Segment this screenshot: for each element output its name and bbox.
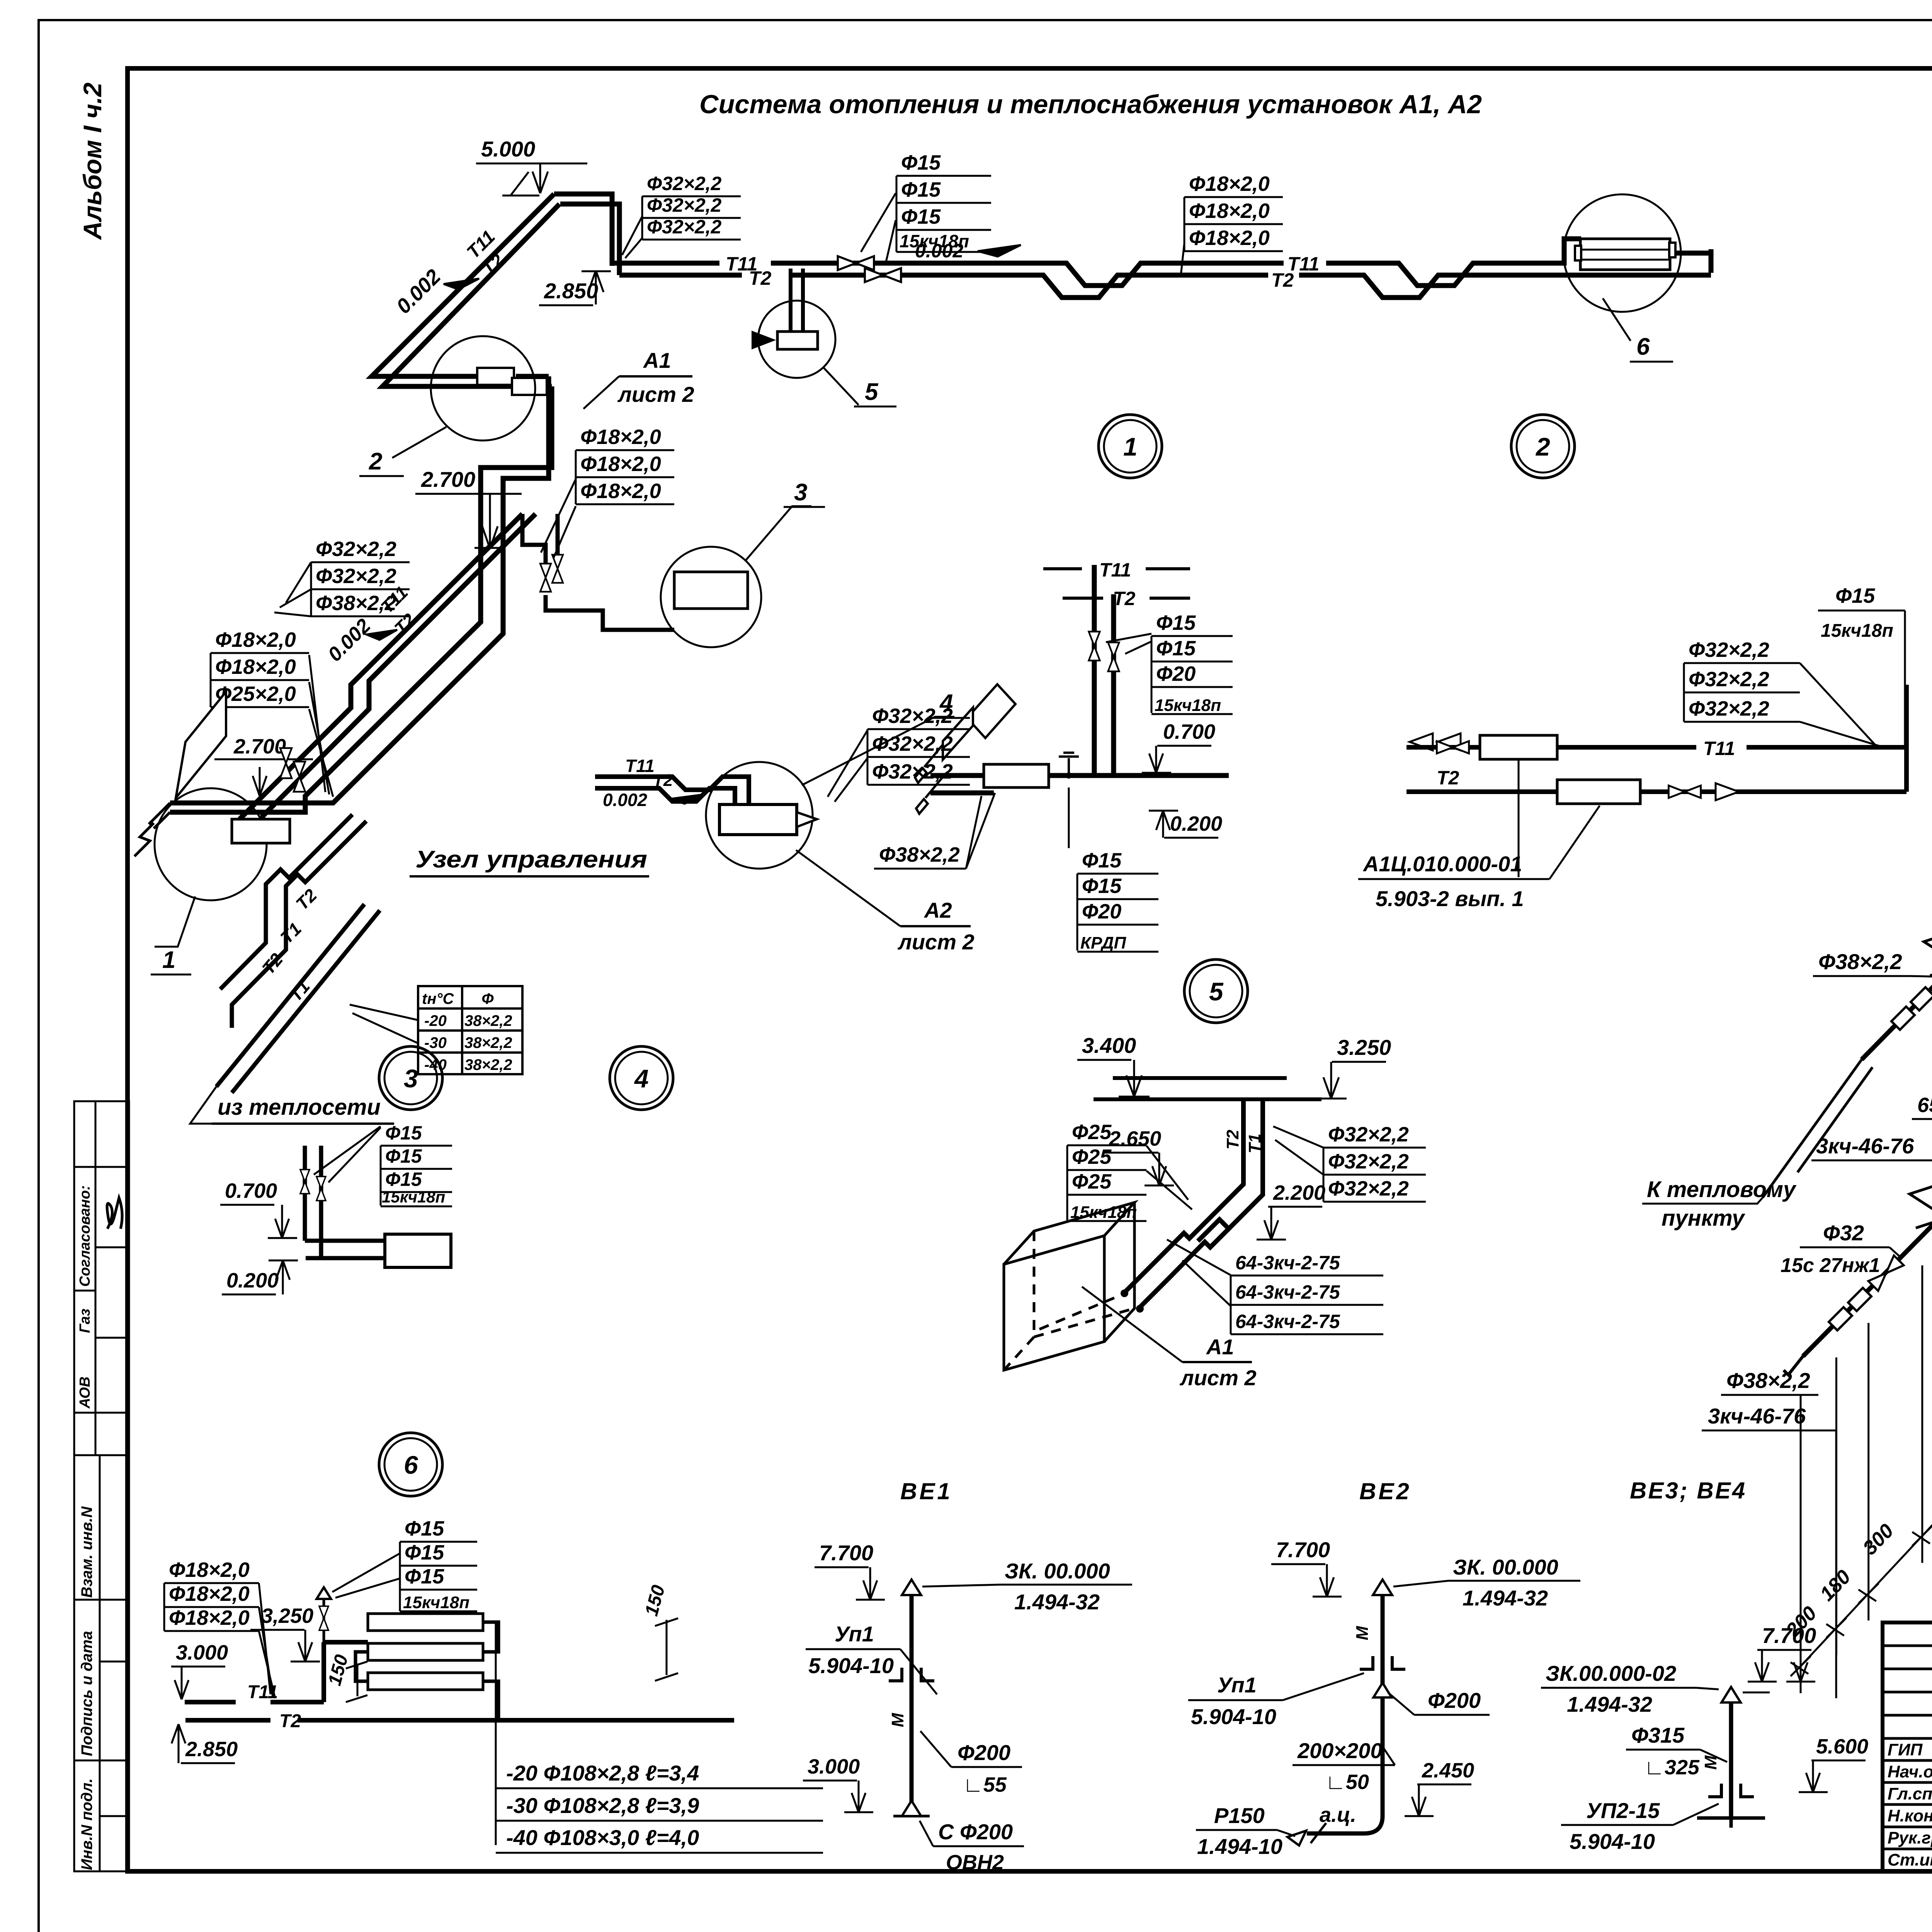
svg-text:Ф15: Ф15: [901, 151, 941, 174]
svg-text:Ф38×2,2: Ф38×2,2: [879, 843, 960, 866]
svg-text:∟50: ∟50: [1325, 1770, 1369, 1794]
BE2 pipe: [1381, 1596, 1385, 1816]
pipe B flags bottom: [1829, 1307, 1852, 1330]
svg-text:ЗК.00.000-02: ЗК.00.000-02: [1546, 1661, 1676, 1685]
svg-text:Т2: Т2: [749, 267, 772, 289]
svg-text:Ф15: Ф15: [385, 1122, 422, 1144]
svg-text:64-3кч-2-75: 64-3кч-2-75: [1235, 1311, 1340, 1332]
svg-text:ГИП: ГИП: [1888, 1740, 1923, 1759]
svg-text:Т11: Т11: [625, 756, 655, 776]
plate element left: [176, 692, 226, 798]
pipe diagonal mid: [236, 514, 536, 831]
svg-text:лист 2: лист 2: [617, 382, 694, 406]
svg-text:65-3К4-2-75: 65-3К4-2-75: [1917, 1094, 1932, 1117]
radiator rows: [368, 1614, 483, 1631]
T2 T1 from teploset: [220, 815, 366, 1028]
svg-text:Т2: Т2: [1437, 767, 1459, 789]
wire diagonal top-left: [372, 194, 554, 376]
svg-text:Инв.N подл.: Инв.N подл.: [78, 1778, 95, 1870]
svg-text:64-3кч-2-75: 64-3кч-2-75: [1235, 1252, 1340, 1274]
pipe B tail: [1784, 1356, 1803, 1375]
radiator element 6: [1580, 239, 1670, 270]
valves below branch T2/T1 drop: [280, 748, 292, 778]
svg-text:Гл.спец.: Гл.спец.: [1888, 1784, 1932, 1803]
circle 6 label: [379, 1433, 442, 1496]
svg-text:Подпись и дата: Подпись и дата: [78, 1631, 95, 1756]
svg-text:Ф18×2,0: Ф18×2,0: [1189, 226, 1270, 250]
svg-text:М: М: [1701, 1755, 1720, 1770]
svg-text:2.450: 2.450: [1422, 1759, 1474, 1782]
svg-text:Ф18×2,0: Ф18×2,0: [169, 1606, 250, 1629]
svg-text:Ф32×2,2: Ф32×2,2: [1689, 638, 1769, 662]
svg-text:2.700: 2.700: [233, 735, 286, 758]
BE2 bottom elbow: [1307, 1816, 1383, 1833]
svg-text:Ф32×2,2: Ф32×2,2: [872, 760, 953, 783]
svg-text:Н.контр.: Н.контр.: [1888, 1806, 1932, 1825]
svg-text:Ф32×2,2: Ф32×2,2: [316, 565, 396, 588]
svg-text:Ф15: Ф15: [1156, 637, 1196, 660]
svg-text:5.903-2 вып. 1: 5.903-2 вып. 1: [1376, 886, 1524, 911]
BE2 arrow slash: [1287, 1823, 1326, 1845]
svg-text:Ф25×2,0: Ф25×2,0: [215, 682, 296, 706]
svg-text:Ф15: Ф15: [385, 1168, 422, 1190]
mid plate exchanger: [967, 684, 1015, 738]
svg-text:С Ф200: С Ф200: [938, 1820, 1013, 1844]
svg-text:-20: -20: [424, 1012, 447, 1029]
svg-text:4: 4: [634, 1064, 649, 1093]
BE34 pipe: [1729, 1703, 1733, 1818]
detail 5 box A1: [1004, 1202, 1134, 1370]
svg-text:3кч-46-76: 3кч-46-76: [1708, 1404, 1806, 1428]
svg-text:Ф15: Ф15: [1156, 611, 1196, 634]
svg-text:5: 5: [1209, 977, 1224, 1006]
svg-text:Ф15: Ф15: [1082, 849, 1122, 872]
svg-text:64-3кч-2-75: 64-3кч-2-75: [1235, 1281, 1340, 1303]
element 1 equipment: [232, 819, 290, 843]
detail 3 valves: [300, 1170, 310, 1194]
BE1 bottom tri: [893, 1815, 930, 1818]
BE34 bottom bar: [1697, 1818, 1765, 1828]
svg-text:15кч18п: 15кч18п: [1155, 696, 1221, 715]
svg-text:3кч-46-76: 3кч-46-76: [1816, 1134, 1914, 1158]
temp table: [418, 986, 522, 1074]
svg-text:15кч18п: 15кч18п: [1821, 621, 1893, 641]
svg-text:3: 3: [404, 1064, 418, 1093]
svg-text:2: 2: [1535, 432, 1550, 461]
pipe A zig 1: [1924, 932, 1932, 976]
svg-text:лист 2: лист 2: [1179, 1366, 1257, 1390]
detail circle 2: [431, 336, 535, 440]
svg-text:5.904-10: 5.904-10: [1570, 1829, 1655, 1854]
svg-text:А2: А2: [923, 898, 952, 922]
svg-text:М: М: [1353, 1626, 1372, 1640]
svg-text:Ф38×2,2: Ф38×2,2: [1726, 1368, 1810, 1393]
svg-text:1.494-32: 1.494-32: [1567, 1692, 1652, 1716]
leader 1: [155, 896, 195, 947]
vent valve botleft: [316, 1587, 331, 1599]
top pipe run T11: [612, 239, 1711, 298]
svg-text:200×200: 200×200: [1297, 1738, 1383, 1763]
pipe B bowtie 1: [1868, 1255, 1904, 1291]
BE1 union: [889, 1664, 934, 1681]
detail circle 1: [155, 788, 267, 900]
valves on branch: [540, 564, 551, 592]
svg-text:15кч18п: 15кч18п: [900, 231, 969, 251]
stamp signature: [107, 1198, 122, 1229]
svg-text:Ф200: Ф200: [957, 1740, 1010, 1765]
pipe B main: [1803, 670, 1932, 1356]
svg-text:Ст.инж.: Ст.инж.: [1888, 1850, 1932, 1869]
svg-text:Ф18×2,0: Ф18×2,0: [215, 628, 296, 651]
svg-text:А1Ц.010.000-01: А1Ц.010.000-01: [1362, 852, 1522, 876]
svg-text:КРДП: КРДП: [1080, 934, 1126, 952]
circle 1 label: [1099, 415, 1162, 478]
svg-text:А1: А1: [1206, 1335, 1234, 1359]
element 5 on top run: [791, 269, 803, 332]
svg-text:А1: А1: [643, 348, 671, 372]
svg-text:Ф32×2,2: Ф32×2,2: [647, 216, 722, 238]
mid heat meter: [984, 764, 1049, 787]
leader 5 top: [823, 367, 859, 405]
svg-text:Альбом I ч.2: Альбом I ч.2: [78, 82, 107, 240]
svg-text:Ф20: Ф20: [1082, 900, 1121, 923]
svg-text:15кч18п: 15кч18п: [403, 1593, 469, 1612]
valves on top run: [838, 256, 874, 270]
svg-text:пункту: пункту: [1662, 1206, 1745, 1231]
svg-text:Т2: Т2: [279, 1711, 301, 1731]
svg-text:Ф18×2,0: Ф18×2,0: [580, 480, 661, 503]
svg-text:38×2,2: 38×2,2: [464, 1056, 512, 1073]
circle 5 label: [1184, 959, 1248, 1023]
svg-text:5.904-10: 5.904-10: [1191, 1704, 1276, 1729]
svg-text:5.000: 5.000: [481, 137, 535, 161]
svg-text:Ф15: Ф15: [901, 178, 941, 201]
pipe B zig 1: [1910, 1184, 1932, 1228]
stack F15 F15 F20 KRDP: [1068, 787, 1070, 848]
pipe to element 4: [595, 777, 749, 804]
svg-text:К тепловому: К тепловому: [1647, 1177, 1797, 1202]
svg-text:Взам. инв.N: Взам. инв.N: [78, 1506, 95, 1598]
svg-text:Ф15: Ф15: [1835, 584, 1875, 607]
detail 3 box: [385, 1234, 451, 1267]
svg-text:5: 5: [865, 379, 879, 405]
svg-text:2.700: 2.700: [421, 467, 475, 492]
svg-text:УП2-15: УП2-15: [1586, 1798, 1660, 1823]
svg-text:ОВН2: ОВН2: [946, 1851, 1004, 1874]
svg-text:2.850: 2.850: [185, 1738, 238, 1761]
svg-text:5.904-10: 5.904-10: [808, 1653, 894, 1678]
detail 3 risers: [305, 1146, 321, 1258]
svg-text:tн°С: tн°С: [422, 990, 454, 1007]
detail 5 risers: [1198, 1099, 1263, 1241]
svg-text:Т2: Т2: [653, 771, 673, 790]
svg-text:Согласовано:: Согласовано:: [77, 1185, 93, 1287]
vent triangle: [902, 1580, 921, 1595]
svg-text:3,250: 3,250: [261, 1604, 313, 1628]
svg-text:Ф15: Ф15: [405, 1517, 444, 1540]
svg-text:15с 27нж1: 15с 27нж1: [1781, 1254, 1880, 1277]
svg-text:Ф32×2,2: Ф32×2,2: [647, 173, 722, 194]
leader 4: [802, 717, 954, 785]
svg-text:Р150: Р150: [1214, 1803, 1265, 1828]
couplings in circle 2: [477, 368, 514, 385]
detail circle 5 marker: [758, 301, 835, 378]
mid break marks: [915, 745, 943, 783]
top pipe run T2: [619, 273, 742, 278]
svg-text:Ф18×2,0: Ф18×2,0: [169, 1558, 250, 1582]
svg-text:Ф18×2,0: Ф18×2,0: [215, 655, 296, 679]
svg-text:Нач.отд.: Нач.отд.: [1888, 1762, 1932, 1781]
svg-text:0.002: 0.002: [603, 790, 648, 810]
svg-text:М: М: [888, 1713, 907, 1727]
svg-text:АОВ: АОВ: [77, 1376, 93, 1409]
circle 3 label: [379, 1046, 442, 1110]
A1C valve right: [1668, 786, 1701, 798]
svg-text:Ф32×2,2: Ф32×2,2: [316, 537, 396, 561]
svg-text:Система отопления и теплосн: Система отопления и теплоснабжения устан…: [699, 90, 1482, 119]
pipe A flags: [1891, 1007, 1915, 1030]
svg-text:3.000: 3.000: [176, 1641, 228, 1664]
circle 4 label: [610, 1046, 673, 1110]
svg-text:3: 3: [794, 479, 807, 506]
element 3 box: [674, 572, 748, 609]
svg-text:3.250: 3.250: [1337, 1035, 1391, 1060]
T11 branch botleft: [185, 1642, 734, 1720]
svg-text:лист 2: лист 2: [897, 930, 975, 954]
A2 detail circle 4el: [706, 762, 813, 869]
svg-text:ВЕ1: ВЕ1: [900, 1478, 952, 1504]
svg-text:Уп1: Уп1: [835, 1622, 874, 1646]
pipe risers to cluster: [170, 611, 503, 812]
svg-text:Т2: Т2: [1113, 588, 1136, 609]
svg-text:Ф32×2,2: Ф32×2,2: [1328, 1123, 1409, 1146]
svg-text:Ф15: Ф15: [901, 205, 941, 228]
dim line D3: [1801, 987, 1932, 1666]
svg-text:2.850: 2.850: [544, 279, 598, 303]
detail circle 3: [661, 547, 761, 647]
signature table: [1883, 1622, 1932, 1871]
svg-text:Рук.гр.: Рук.гр.: [1888, 1828, 1932, 1847]
svg-text:-40 Ф108×3,0 ℓ=4,0: -40 Ф108×3,0 ℓ=4,0: [506, 1825, 699, 1850]
svg-text:15кч18п: 15кч18п: [382, 1188, 445, 1206]
A1C meter 1: [1480, 735, 1557, 759]
svg-text:Ф18×2,0: Ф18×2,0: [1189, 172, 1270, 196]
svg-text:0.200: 0.200: [1170, 812, 1222, 835]
pipe A main: [1862, 466, 1932, 1060]
svg-text:из теплосети: из теплосети: [218, 1095, 381, 1120]
element 4 box: [719, 804, 797, 835]
detail 5 diagram ceiling: [1094, 1078, 1321, 1099]
svg-text:0.200: 0.200: [226, 1269, 279, 1292]
svg-text:Ф25: Ф25: [1072, 1145, 1112, 1168]
svg-text:Ф315: Ф315: [1631, 1723, 1685, 1747]
svg-text:∟325: ∟325: [1644, 1756, 1700, 1779]
svg-text:ВЕ2: ВЕ2: [1359, 1478, 1412, 1504]
svg-text:-20 Ф108×2,8 ℓ=3,4: -20 Ф108×2,8 ℓ=3,4: [506, 1761, 699, 1785]
detail 5 zigzag pipe: [1124, 1219, 1229, 1308]
svg-text:Ф: Ф: [481, 990, 494, 1007]
svg-text:ЗК. 00.000: ЗК. 00.000: [1005, 1559, 1110, 1583]
svg-text:∟55: ∟55: [963, 1773, 1007, 1796]
svg-text:1.494-32: 1.494-32: [1463, 1586, 1548, 1610]
svg-text:Т11: Т11: [1099, 559, 1131, 581]
svg-text:Т2: Т2: [1271, 269, 1294, 291]
A1C meter 2: [1557, 780, 1640, 804]
svg-text:7.700: 7.700: [1276, 1537, 1330, 1562]
svg-text:1: 1: [1123, 432, 1138, 461]
circle 2 label: [1511, 415, 1575, 478]
svg-text:Т11: Т11: [1703, 738, 1735, 759]
svg-text:2: 2: [369, 448, 382, 475]
svg-text:Т2: Т2: [1223, 1129, 1242, 1150]
stamp column grid: [74, 1101, 129, 1871]
A1C diagram arrows: [1410, 733, 1433, 750]
leaders from D3 ticks: [1800, 1396, 1802, 1693]
svg-text:Ф25: Ф25: [1072, 1121, 1112, 1144]
svg-text:1: 1: [162, 947, 175, 973]
svg-text:Ф18×2,0: Ф18×2,0: [580, 425, 661, 449]
svg-text:Узел управления: Узел управления: [415, 846, 647, 873]
leader to 2: [392, 427, 446, 458]
svg-text:2.200: 2.200: [1273, 1181, 1325, 1204]
svg-text:6: 6: [404, 1451, 418, 1479]
svg-text:Ф20: Ф20: [1156, 662, 1196, 685]
svg-text:Ф15: Ф15: [385, 1145, 422, 1167]
A1C bowtie left: [1437, 741, 1469, 753]
BE1 pipe: [910, 1596, 914, 1816]
svg-text:Т11: Т11: [247, 1682, 278, 1702]
svg-text:0.700: 0.700: [1163, 720, 1215, 743]
svg-text:Газ: Газ: [77, 1309, 93, 1333]
svg-text:Ф32×2,2: Ф32×2,2: [1689, 697, 1769, 720]
leader table temp: [350, 1005, 418, 1020]
BE2 mid tri: [1373, 1683, 1391, 1697]
svg-text:Ф200: Ф200: [1428, 1688, 1481, 1713]
svg-text:Уп1: Уп1: [1217, 1673, 1257, 1697]
BE34 union: [1708, 1780, 1754, 1797]
svg-text:Ф32: Ф32: [1823, 1221, 1864, 1245]
svg-text:6: 6: [1636, 333, 1650, 360]
pipe A tail: [1763, 1060, 1862, 1197]
radiator leader table: [495, 1623, 497, 1845]
detail circle 6 top: [1563, 194, 1681, 312]
svg-text:Ф15: Ф15: [405, 1541, 444, 1564]
svg-text:Ф32×2,2: Ф32×2,2: [1328, 1177, 1409, 1200]
svg-text:3.000: 3.000: [808, 1755, 860, 1778]
svg-text:Ф18×2,0: Ф18×2,0: [1189, 199, 1270, 223]
svg-text:Ф18×2,0: Ф18×2,0: [169, 1582, 250, 1605]
radiator connectors: [483, 1622, 498, 1652]
svg-text:7.700: 7.700: [819, 1541, 873, 1565]
svg-text:4: 4: [939, 690, 953, 716]
svg-text:ВЕ3; ВЕ4: ВЕ3; ВЕ4: [1630, 1478, 1747, 1503]
svg-text:ЗК. 00.000: ЗК. 00.000: [1453, 1555, 1558, 1579]
svg-text:Ф15: Ф15: [405, 1565, 444, 1588]
mid valves: [1089, 632, 1100, 661]
svg-text:Ф32×2,2: Ф32×2,2: [1328, 1150, 1409, 1173]
svg-text:Ф38×2,2: Ф38×2,2: [1818, 949, 1902, 974]
svg-text:1.494-32: 1.494-32: [1014, 1590, 1100, 1614]
svg-text:Ф32×2,2: Ф32×2,2: [647, 194, 722, 216]
svg-text:1.494-10: 1.494-10: [1197, 1834, 1282, 1859]
A1C T11 line: [1406, 685, 1906, 792]
svg-text:5.600: 5.600: [1816, 1735, 1868, 1758]
svg-text:2.650: 2.650: [1109, 1127, 1161, 1150]
svg-text:Ф18×2,0: Ф18×2,0: [580, 452, 661, 476]
svg-text:38×2,2: 38×2,2: [464, 1034, 512, 1051]
pipe drop from circle2: [481, 386, 552, 611]
svg-text:Ф32×2,2: Ф32×2,2: [1689, 668, 1769, 691]
pipe top-left elbow: [372, 194, 619, 394]
svg-text:-30: -30: [424, 1034, 447, 1051]
vent triangle: [1373, 1580, 1392, 1595]
branch to element 3: [522, 514, 674, 630]
svg-text:Т1: Т1: [1245, 1134, 1264, 1153]
svg-text:Ф25: Ф25: [1072, 1170, 1112, 1193]
mid valve stem: [1059, 753, 1079, 775]
iz teploseti: [216, 904, 380, 1093]
svg-text:Ф15: Ф15: [1082, 874, 1122, 898]
svg-text:3.400: 3.400: [1082, 1033, 1136, 1058]
mid diagram risers: [930, 565, 1229, 793]
detail 3 pipes to box: [305, 1239, 385, 1243]
mid T11 T2 labels: [1043, 567, 1190, 570]
svg-text:38×2,2: 38×2,2: [464, 1012, 512, 1029]
svg-text:0.700: 0.700: [225, 1179, 277, 1202]
svg-text:-30 Ф108×2,8 ℓ=3,9: -30 Ф108×2,8 ℓ=3,9: [506, 1793, 699, 1818]
BE2 union: [1360, 1652, 1405, 1669]
